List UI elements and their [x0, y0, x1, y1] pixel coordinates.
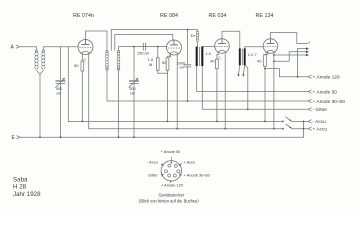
svg-text:+ Anode 30÷60: + Anode 30÷60: [313, 99, 346, 105]
svg-text:Dr: Dr: [191, 33, 196, 38]
svg-text:+ Accu: + Accu: [313, 127, 328, 133]
svg-text:250 cm: 250 cm: [138, 52, 150, 56]
svg-text:+ Anode 50: + Anode 50: [161, 149, 182, 154]
svg-text:50: 50: [74, 63, 79, 68]
svg-text:- Accu: - Accu: [313, 119, 327, 125]
svg-text:40: 40: [257, 59, 262, 64]
svg-text:Gerätestecker: Gerätestecker: [159, 193, 185, 198]
svg-text:+ Anode 50: + Anode 50: [313, 89, 338, 95]
svg-text:RE 084: RE 084: [160, 13, 178, 19]
svg-text:Jahr 1928: Jahr 1928: [13, 191, 41, 198]
svg-text:cm: cm: [180, 66, 185, 70]
svg-text:M: M: [149, 62, 152, 67]
svg-text:- Accu: - Accu: [147, 159, 158, 164]
svg-text:50: 50: [162, 60, 167, 65]
svg-text:Saba: Saba: [13, 176, 28, 183]
svg-text:cm: cm: [130, 91, 135, 95]
svg-text:Gitter: Gitter: [148, 172, 158, 177]
svg-text:(Blick von hinten auf die Buch: (Blick von hinten auf die Buchse): [139, 198, 199, 203]
svg-text:+ Anode 120: + Anode 120: [161, 183, 184, 188]
svg-text:RE 034: RE 034: [209, 13, 227, 19]
svg-text:+ Anode 120: + Anode 120: [313, 75, 340, 81]
svg-text:+ Anode 30÷60: + Anode 30÷60: [184, 172, 211, 177]
svg-text:- Gitter: - Gitter: [313, 107, 328, 113]
svg-text:40: 40: [210, 59, 215, 64]
svg-text:1:4: 1:4: [205, 51, 211, 56]
svg-text:1:2,7: 1:2,7: [248, 52, 258, 57]
svg-text:+ Accu: + Accu: [184, 159, 196, 164]
svg-text:cm: cm: [57, 91, 62, 95]
svg-text:RE 134: RE 134: [256, 13, 274, 19]
svg-text:H 28: H 28: [13, 184, 27, 191]
svg-text:RE 074n: RE 074n: [73, 13, 94, 19]
